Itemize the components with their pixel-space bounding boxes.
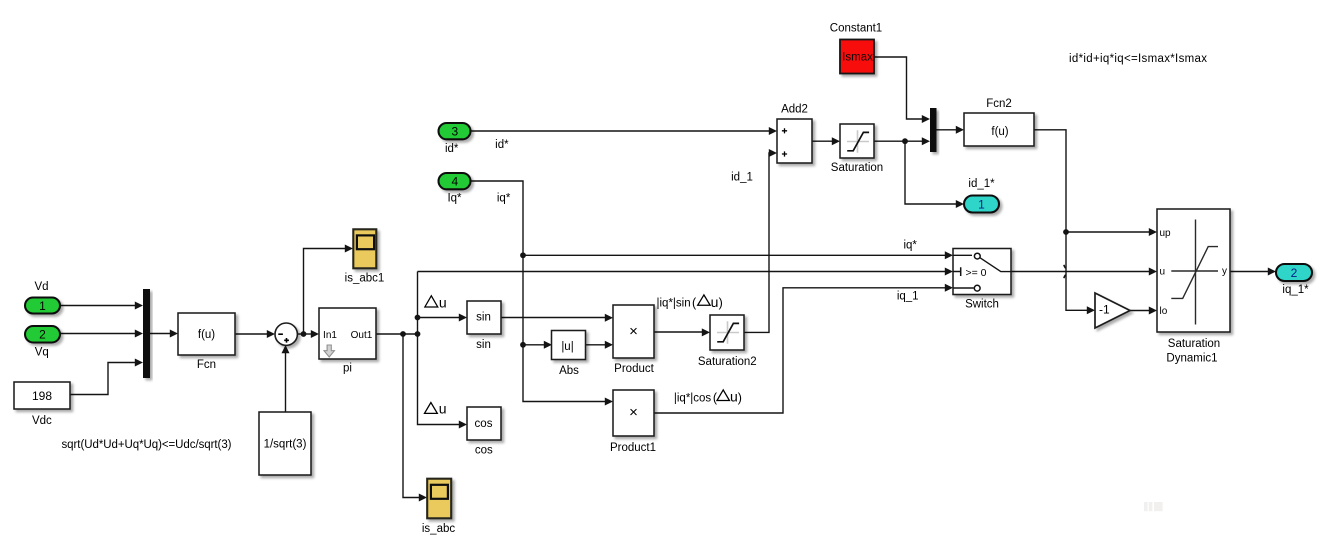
block Fcn f(u) bbox=[178, 313, 235, 355]
svg-text:Add2: Add2 bbox=[781, 104, 808, 116]
inport 3 id* bbox=[439, 123, 471, 139]
wire Vq inport-2 to Mux bbox=[60, 333, 135, 335]
constant 1/sqrt(3) bbox=[259, 412, 311, 475]
svg-text:id*: id* bbox=[445, 143, 459, 155]
svg-text:sin: sin bbox=[476, 312, 491, 324]
svg-text:Ismax: Ismax bbox=[842, 52, 873, 64]
svg-text:Product: Product bbox=[614, 363, 654, 375]
wire Product to Saturation2 bbox=[654, 331, 702, 333]
subsystem pi bbox=[319, 308, 376, 359]
wire sin to Product input-1 bbox=[501, 317, 605, 319]
wire delta-u vertical with cos branch bbox=[418, 272, 460, 425]
svg-text:iq_1: iq_1 bbox=[897, 291, 919, 303]
block Product1 bbox=[613, 390, 654, 436]
wire Vdc constant to Mux bbox=[70, 363, 135, 395]
wire Ismax constant to Mux1 input-1 bbox=[874, 57, 922, 119]
annotation delta-u lower bbox=[424, 403, 437, 414]
svg-text:>= 0: >= 0 bbox=[966, 267, 987, 279]
wire gain to Saturation Dynamic lo input bbox=[1130, 310, 1149, 312]
wire Mux to Fcn bbox=[150, 333, 170, 335]
block Add2 bbox=[777, 119, 812, 163]
block Fcn2 f(u) bbox=[964, 113, 1034, 146]
svg-text:sin: sin bbox=[476, 339, 491, 351]
outport 2 iq_1* bbox=[1276, 264, 1312, 281]
wire iq* branch to Abs bbox=[523, 344, 544, 346]
faint gray artifact marks bbox=[1144, 502, 1148, 511]
wire 1/sqrt(3) to sum plus input bbox=[285, 352, 287, 412]
wire Switch output to Saturation Dynamic u input bbox=[1011, 271, 1149, 273]
wire iq* trunk from inport-4 down to Product1 bbox=[471, 181, 605, 402]
svg-text:Product1: Product1 bbox=[610, 442, 656, 454]
svg-text:iq*: iq* bbox=[497, 193, 511, 205]
wire limit to Saturation Dynamic up input bbox=[1066, 231, 1149, 233]
wire Saturation Dynamic y to outport iq_1* bbox=[1230, 271, 1268, 273]
wire Saturation to Mux1 input-2 bbox=[874, 140, 922, 142]
svg-text:4: 4 bbox=[451, 175, 458, 189]
gain -1 bbox=[1095, 293, 1130, 328]
block cos bbox=[467, 407, 501, 440]
svg-text:1: 1 bbox=[39, 299, 46, 313]
svg-text:id*: id* bbox=[495, 139, 509, 151]
svg-text:Saturation: Saturation bbox=[1168, 338, 1220, 350]
svg-text:is_abc: is_abc bbox=[422, 523, 455, 535]
wire id* inport-3 to Add2 input-1 bbox=[471, 130, 769, 132]
svg-text:1: 1 bbox=[978, 198, 985, 212]
svg-text:u: u bbox=[439, 401, 447, 417]
wire sum to pi In1 bbox=[297, 333, 311, 335]
wire Fcn2 down to gain input bbox=[1034, 130, 1087, 310]
wire Vd inport-1 to Mux bbox=[60, 305, 135, 307]
svg-text:Switch: Switch bbox=[965, 299, 999, 311]
mux Mux1 (2-input) bbox=[930, 108, 937, 152]
svg-text:-1: -1 bbox=[1099, 303, 1110, 317]
svg-text:Out1: Out1 bbox=[351, 330, 373, 341]
svg-text:u: u bbox=[711, 294, 719, 310]
svg-text:id_1: id_1 bbox=[731, 172, 753, 184]
svg-text:id_1*: id_1* bbox=[968, 178, 995, 190]
svg-text:id*id+iq*iq<=Ismax*Ismax: id*id+iq*iq<=Ismax*Ismax bbox=[1069, 53, 1207, 65]
wire Abs to Product input-2 bbox=[585, 344, 605, 346]
svg-text:198: 198 bbox=[32, 389, 52, 403]
block Saturation Dynamic1 bbox=[1157, 209, 1230, 332]
svg-text:Fcn: Fcn bbox=[197, 359, 216, 371]
wire id_1 Saturation2 up to Add2 input-2 bbox=[744, 153, 770, 332]
annotation delta-u upper bbox=[425, 296, 438, 307]
svg-text:|iq*|sin: |iq*|sin bbox=[657, 298, 691, 310]
svg-text:u: u bbox=[439, 294, 447, 310]
wire crossing hop marks at x1066 bbox=[1064, 265, 1066, 278]
svg-text:): ) bbox=[738, 391, 742, 405]
svg-text:Saturation2: Saturation2 bbox=[698, 356, 757, 368]
svg-text:is_abc1: is_abc1 bbox=[345, 273, 385, 285]
svg-text:Dynamic1: Dynamic1 bbox=[1166, 353, 1217, 365]
outport 1 id_1* bbox=[964, 196, 999, 213]
wire pi Out1 trunk bbox=[376, 333, 418, 335]
block Switch bbox=[953, 249, 1011, 295]
constant Constant1 Ismax bbox=[840, 40, 874, 74]
svg-text:iq_1*: iq_1* bbox=[1282, 284, 1309, 296]
svg-text:Vdc: Vdc bbox=[32, 415, 52, 427]
svg-text:×: × bbox=[629, 404, 638, 421]
svg-text:f(u): f(u) bbox=[198, 329, 215, 341]
wire branch Saturation to outport id_1* bbox=[905, 141, 956, 204]
svg-text:f(u): f(u) bbox=[991, 126, 1008, 138]
svg-text:Saturation: Saturation bbox=[831, 162, 883, 174]
svg-text:cos: cos bbox=[475, 445, 493, 457]
block Product bbox=[613, 305, 654, 358]
svg-text:u: u bbox=[730, 389, 738, 405]
wire Add2 to Saturation bbox=[812, 140, 832, 142]
svg-text:Iq*: Iq* bbox=[447, 193, 462, 205]
svg-text:2: 2 bbox=[39, 327, 46, 341]
svg-text:|u|: |u| bbox=[561, 341, 573, 353]
svg-text:): ) bbox=[719, 296, 723, 310]
svg-text:|iq*|cos: |iq*|cos bbox=[674, 392, 712, 404]
block sin bbox=[467, 301, 501, 334]
trigger-style gray down arrow inside pi bbox=[324, 345, 334, 357]
svg-text:up: up bbox=[1160, 228, 1172, 239]
svg-text:1/sqrt(3): 1/sqrt(3) bbox=[264, 439, 307, 451]
inport 2 Vq bbox=[25, 326, 60, 343]
sum junction (minus plus) bbox=[275, 323, 297, 345]
svg-text:Vd: Vd bbox=[34, 281, 48, 293]
svg-text:In1: In1 bbox=[323, 330, 337, 341]
svg-text:2: 2 bbox=[1291, 266, 1298, 280]
svg-text:cos: cos bbox=[475, 418, 493, 430]
block Abs |u| bbox=[552, 331, 586, 360]
svg-text:u: u bbox=[1160, 267, 1166, 278]
block Saturation bbox=[840, 124, 874, 158]
svg-text:lo: lo bbox=[1160, 306, 1168, 317]
svg-text:Fcn2: Fcn2 bbox=[986, 98, 1012, 110]
wire iq* branch to Switch input-1 bbox=[523, 254, 945, 256]
mux Mux (3-input) bbox=[143, 289, 150, 378]
svg-text:Abs: Abs bbox=[559, 365, 579, 377]
constant Vdc value 198 bbox=[14, 382, 70, 409]
svg-text:Constant1: Constant1 bbox=[830, 23, 882, 35]
svg-text:3: 3 bbox=[451, 125, 458, 139]
wire iq_1 Product1 to Switch input-3 bbox=[654, 288, 945, 413]
wire branch to scope is_abc bbox=[403, 334, 419, 498]
svg-text:Vq: Vq bbox=[35, 346, 49, 358]
inport 4 Iq* bbox=[439, 173, 471, 189]
scope is_abc bbox=[427, 479, 451, 519]
wire branch sum to scope is_abc1 bbox=[304, 249, 346, 335]
wire delta-u to sin bbox=[418, 317, 460, 319]
svg-text:×: × bbox=[629, 323, 638, 340]
svg-text:sqrt(Ud*Ud+Uq*Uq)<=Udc/sqrt(3): sqrt(Ud*Ud+Uq*Uq)<=Udc/sqrt(3) bbox=[62, 439, 232, 451]
wire Mux1 to Fcn2 bbox=[937, 129, 957, 131]
svg-text:pi: pi bbox=[343, 363, 352, 375]
svg-text:iq*: iq* bbox=[903, 240, 917, 252]
svg-text:y: y bbox=[1222, 266, 1227, 277]
wire Fcn to sum bbox=[235, 333, 267, 335]
scope is_abc1 bbox=[353, 229, 376, 268]
inport 1 Vd bbox=[25, 298, 60, 314]
wire delta-u to Switch control input bbox=[418, 271, 946, 273]
block Saturation2 bbox=[710, 315, 744, 350]
